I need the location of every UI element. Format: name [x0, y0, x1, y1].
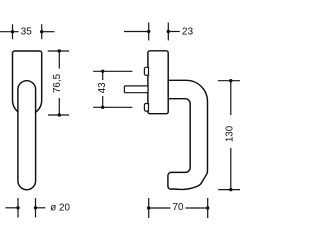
front view rosette plate — [13, 51, 42, 115]
side view handle lever outline — [168, 80, 208, 189]
dimension 23 line — [124, 23, 180, 41]
dimension 23 dots — [147, 30, 150, 33]
dimension 70 line — [149, 198, 208, 218]
side view rosette plate — [148, 51, 168, 114]
dimension diameter 20 line — [6, 198, 46, 218]
dimension 43 line — [93, 71, 132, 107]
dimension 76,5 line — [48, 51, 69, 115]
dimension 43 dots — [101, 70, 104, 73]
svg-text:130: 130 — [224, 125, 235, 142]
svg-text:ø 20: ø 20 — [50, 202, 70, 213]
front view handle grip — [18, 81, 36, 190]
svg-text:43: 43 — [97, 82, 108, 93]
svg-text:35: 35 — [21, 27, 33, 38]
dimension 130 line — [218, 81, 240, 190]
side view lower mounting tab — [144, 104, 148, 112]
dimension 76,5 dots — [58, 49, 61, 52]
svg-text:70: 70 — [173, 202, 184, 213]
svg-text:76,5: 76,5 — [52, 73, 63, 93]
side view spindle shaft — [124, 86, 148, 93]
dimension 130 dots — [229, 79, 232, 82]
svg-text:23: 23 — [182, 26, 194, 37]
dimension 35 dots — [11, 30, 14, 33]
dimension 35 line — [0, 24, 55, 39]
dimension diameter 20 dots — [16, 206, 19, 209]
dimension 70 dots — [147, 206, 150, 209]
side view upper mounting tab — [144, 67, 148, 75]
